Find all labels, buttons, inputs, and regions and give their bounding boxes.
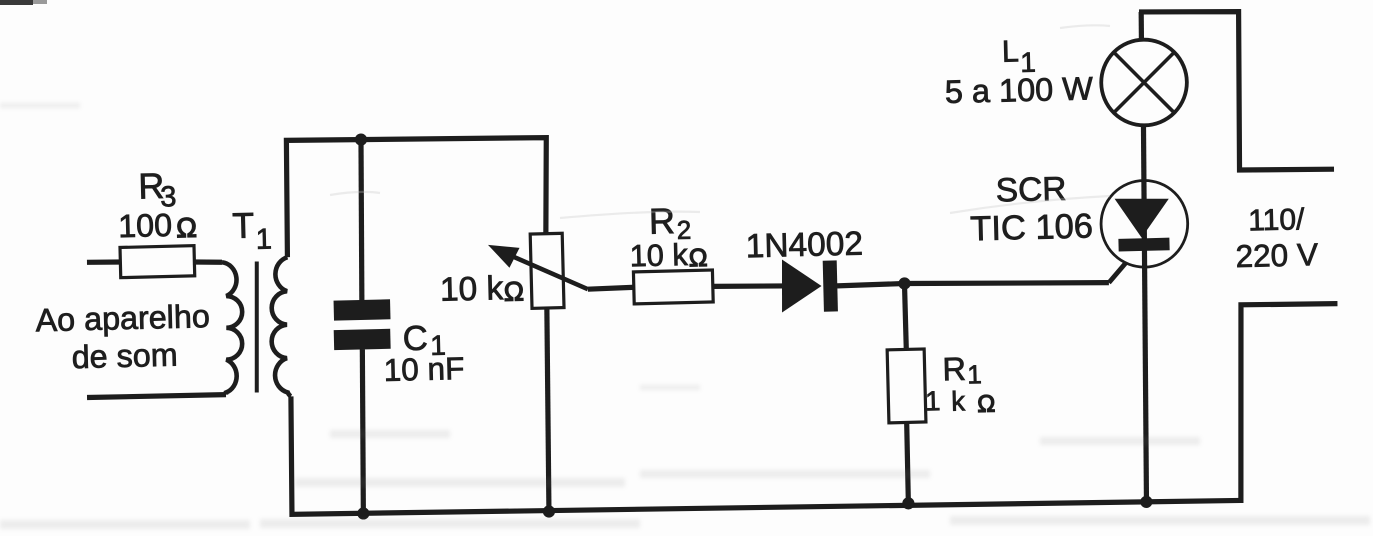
potentiometer P1 10k body xyxy=(530,233,564,308)
lamp L1 cross stroke 1 xyxy=(1114,51,1175,113)
wire R3 left lead xyxy=(87,259,122,265)
resistor R3 xyxy=(120,246,195,278)
svg-text:R: R xyxy=(942,351,966,388)
wire bottom-left lead xyxy=(87,395,226,398)
wire potentiometer bottom xyxy=(546,308,549,512)
node R1-bus junction dot xyxy=(902,497,914,509)
wire lamp to SCR to bus xyxy=(1142,125,1148,502)
svg-text:T: T xyxy=(232,206,255,247)
potentiometer wiper line xyxy=(506,253,588,291)
svg-text:L: L xyxy=(1002,34,1020,68)
wire R1 top xyxy=(904,284,906,350)
svg-text:1: 1 xyxy=(255,223,272,255)
SCR cathode bar xyxy=(1118,238,1169,252)
scan artifact: top-left corner mark xyxy=(0,0,33,5)
potentiometer wiper arrowhead xyxy=(488,244,520,268)
svg-text:10 nF: 10 nF xyxy=(383,350,464,388)
lamp L1 circle xyxy=(1101,39,1188,126)
wire C1 top drop xyxy=(360,140,363,301)
wire secondary bottom to bottom bus xyxy=(291,385,1241,515)
wire top right rail to upper AC terminal xyxy=(1139,10,1334,172)
node G gate junction dot xyxy=(898,277,910,289)
svg-text:Ω: Ω xyxy=(688,244,707,272)
svg-text:1: 1 xyxy=(925,385,941,416)
svg-text:1N4002: 1N4002 xyxy=(745,226,863,266)
svg-text:110/: 110/ xyxy=(1248,203,1306,237)
lamp L1 cross stroke 2 xyxy=(1113,52,1175,113)
svg-text:Ω: Ω xyxy=(176,212,197,243)
scan artifacts: faint bleed-through smudges xyxy=(0,103,1370,529)
svg-text:R: R xyxy=(648,200,675,242)
wire R2 to diode xyxy=(713,286,783,287)
wire secondary top to top rail to potentiometer xyxy=(286,137,548,257)
wire R1 bottom xyxy=(907,422,909,503)
svg-text:Ao aparelho: Ao aparelho xyxy=(35,298,210,338)
transformer T1 core xyxy=(255,262,258,393)
wire gate horizontal xyxy=(904,281,1108,285)
svg-text:Ω: Ω xyxy=(977,391,996,418)
resistor R1 xyxy=(887,349,926,423)
svg-text:SCR: SCR xyxy=(995,171,1067,210)
transformer T1 primary winding xyxy=(222,262,243,395)
node rail junction dot xyxy=(355,133,367,145)
svg-text:1: 1 xyxy=(967,359,982,389)
wire lamp top stub xyxy=(1138,12,1144,41)
wire diode to node G xyxy=(837,284,905,286)
svg-text:Ω: Ω xyxy=(503,276,524,306)
wire gate diagonal to SCR xyxy=(1108,249,1137,282)
wire C1 bottom drop xyxy=(361,349,364,513)
node pot-bus junction dot xyxy=(543,505,555,517)
wire lower AC terminal to bottom bus xyxy=(1238,304,1339,503)
capacitor C1 top plate xyxy=(334,299,391,320)
transformer T1 secondary winding xyxy=(271,257,291,396)
svg-text:100: 100 xyxy=(118,207,173,244)
diode D1 1N4002 triangle xyxy=(781,259,821,312)
svg-text:10 k: 10 k xyxy=(440,270,504,309)
diode D1 cathode bar xyxy=(823,260,838,311)
svg-text:5 a 100 W: 5 a 100 W xyxy=(944,70,1093,110)
resistor R2 xyxy=(633,270,713,304)
node C1-bus junction dot xyxy=(357,507,369,519)
node SCR-bus junction dot xyxy=(1140,496,1152,508)
svg-text:TIC 106: TIC 106 xyxy=(970,207,1094,248)
wire wiper to R2 xyxy=(588,287,635,289)
SCR anode triangle xyxy=(1115,198,1170,238)
svg-text:k: k xyxy=(951,385,966,416)
capacitor C1 bottom plate xyxy=(334,329,391,350)
svg-text:10 k: 10 k xyxy=(629,237,688,273)
wire R3 to T1 primary xyxy=(193,259,222,265)
svg-text:de som: de som xyxy=(71,337,178,376)
svg-text:220 V: 220 V xyxy=(1235,236,1318,274)
SCR U1 envelope circle xyxy=(1101,180,1189,268)
